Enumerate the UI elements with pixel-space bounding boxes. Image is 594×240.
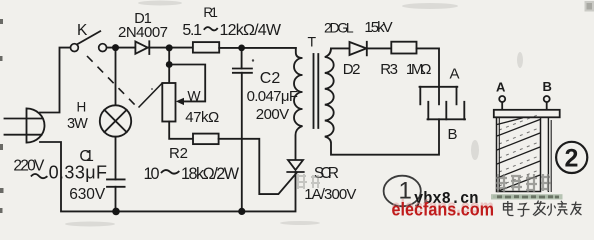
svg-text:220V: 220V [13, 158, 45, 175]
svg-text:630V: 630V [69, 186, 106, 203]
svg-text:K: K [77, 22, 88, 39]
svg-text:D2: D2 [343, 61, 361, 78]
svg-text:R3: R3 [380, 61, 398, 78]
svg-text:2DGL: 2DGL [324, 20, 354, 36]
svg-text:47kΩ: 47kΩ [185, 109, 219, 126]
svg-text:5.1: 5.1 [182, 22, 202, 39]
svg-text:W: W [187, 87, 201, 103]
svg-text:1A/300V: 1A/300V [304, 186, 356, 203]
svg-text:R1: R1 [203, 5, 218, 20]
svg-text:200V: 200V [256, 106, 289, 123]
svg-text:0.047μF: 0.047μF [247, 88, 298, 105]
svg-text:18kΩ/2W: 18kΩ/2W [181, 165, 240, 183]
svg-text:A: A [450, 66, 460, 83]
svg-text:0.33μF: 0.33μF [49, 163, 107, 183]
svg-text:B: B [448, 126, 458, 143]
svg-text:1MΩ: 1MΩ [406, 61, 432, 78]
svg-text:A: A [496, 80, 506, 95]
svg-text:elecfans.com: elecfans.com [392, 199, 495, 220]
svg-text:3W: 3W [67, 116, 88, 132]
svg-text:T: T [308, 34, 317, 50]
svg-text:12kΩ/4W: 12kΩ/4W [220, 22, 282, 39]
svg-text:C2: C2 [260, 70, 281, 87]
svg-text:B: B [543, 79, 552, 94]
svg-text:H: H [77, 100, 87, 115]
svg-text:15kV: 15kV [364, 19, 392, 36]
svg-text:R2: R2 [169, 145, 188, 162]
svg-text:2N4007: 2N4007 [118, 24, 168, 41]
svg-text:2: 2 [565, 145, 579, 173]
svg-text:10: 10 [144, 165, 160, 183]
